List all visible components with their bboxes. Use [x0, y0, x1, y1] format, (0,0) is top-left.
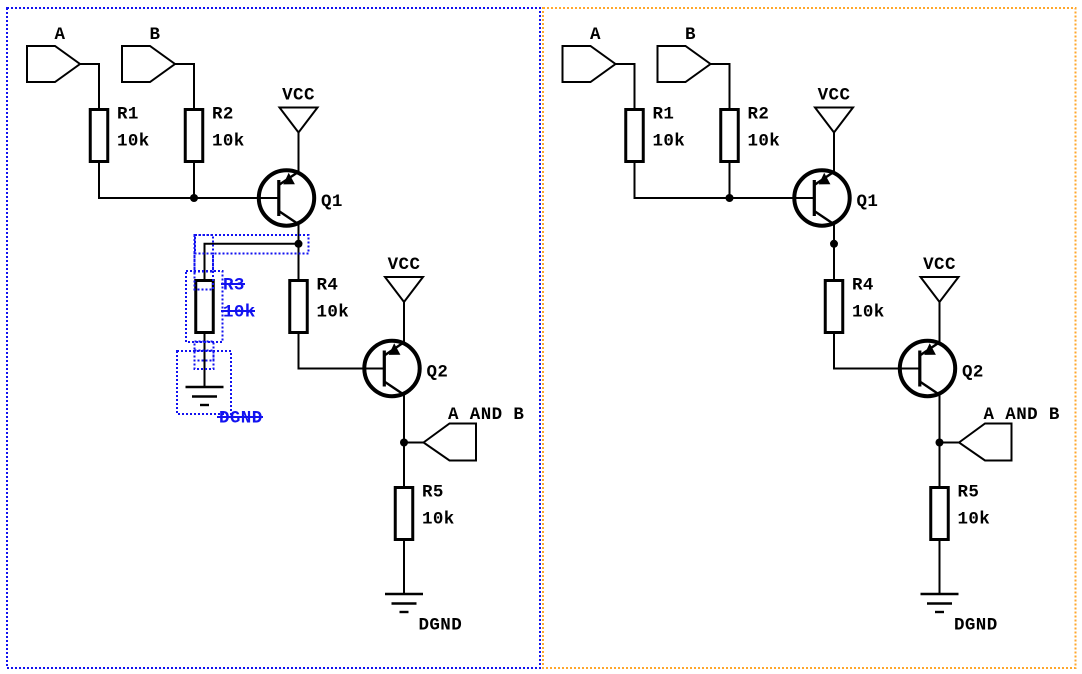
svg-text:10k: 10k: [223, 303, 256, 323]
svg-text:R3: R3: [223, 276, 245, 296]
svg-text:DGND: DGND: [219, 409, 263, 429]
